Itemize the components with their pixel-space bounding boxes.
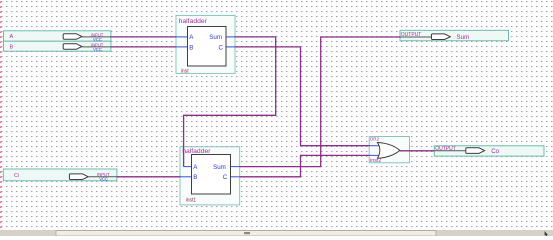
- svg-text:halfadder: halfadder: [179, 18, 208, 25]
- svg-text:VCC: VCC: [93, 47, 102, 52]
- svg-text:inst2: inst2: [370, 158, 381, 164]
- svg-text:Sum: Sum: [213, 164, 226, 171]
- svg-text:OR2: OR2: [370, 136, 380, 141]
- svg-text:Sum: Sum: [209, 34, 222, 41]
- svg-text:C: C: [223, 174, 228, 181]
- svg-text:Ci: Ci: [14, 173, 19, 179]
- svg-text:VCC: VCC: [99, 177, 108, 182]
- svg-text:inst: inst: [181, 69, 189, 75]
- svg-text:halfadder: halfadder: [182, 148, 211, 155]
- svg-text:inst1: inst1: [186, 197, 197, 203]
- svg-text:B: B: [189, 44, 193, 51]
- svg-text:OUTPUT: OUTPUT: [401, 32, 422, 38]
- svg-text:VCC: VCC: [93, 37, 102, 42]
- svg-text:A: A: [10, 34, 14, 40]
- svg-text:B: B: [10, 45, 14, 51]
- svg-text:Sum: Sum: [457, 34, 470, 41]
- svg-text:OUTPUT: OUTPUT: [435, 146, 456, 152]
- svg-text:B: B: [193, 174, 197, 181]
- svg-text:Co: Co: [491, 148, 499, 155]
- svg-text:C: C: [219, 44, 224, 51]
